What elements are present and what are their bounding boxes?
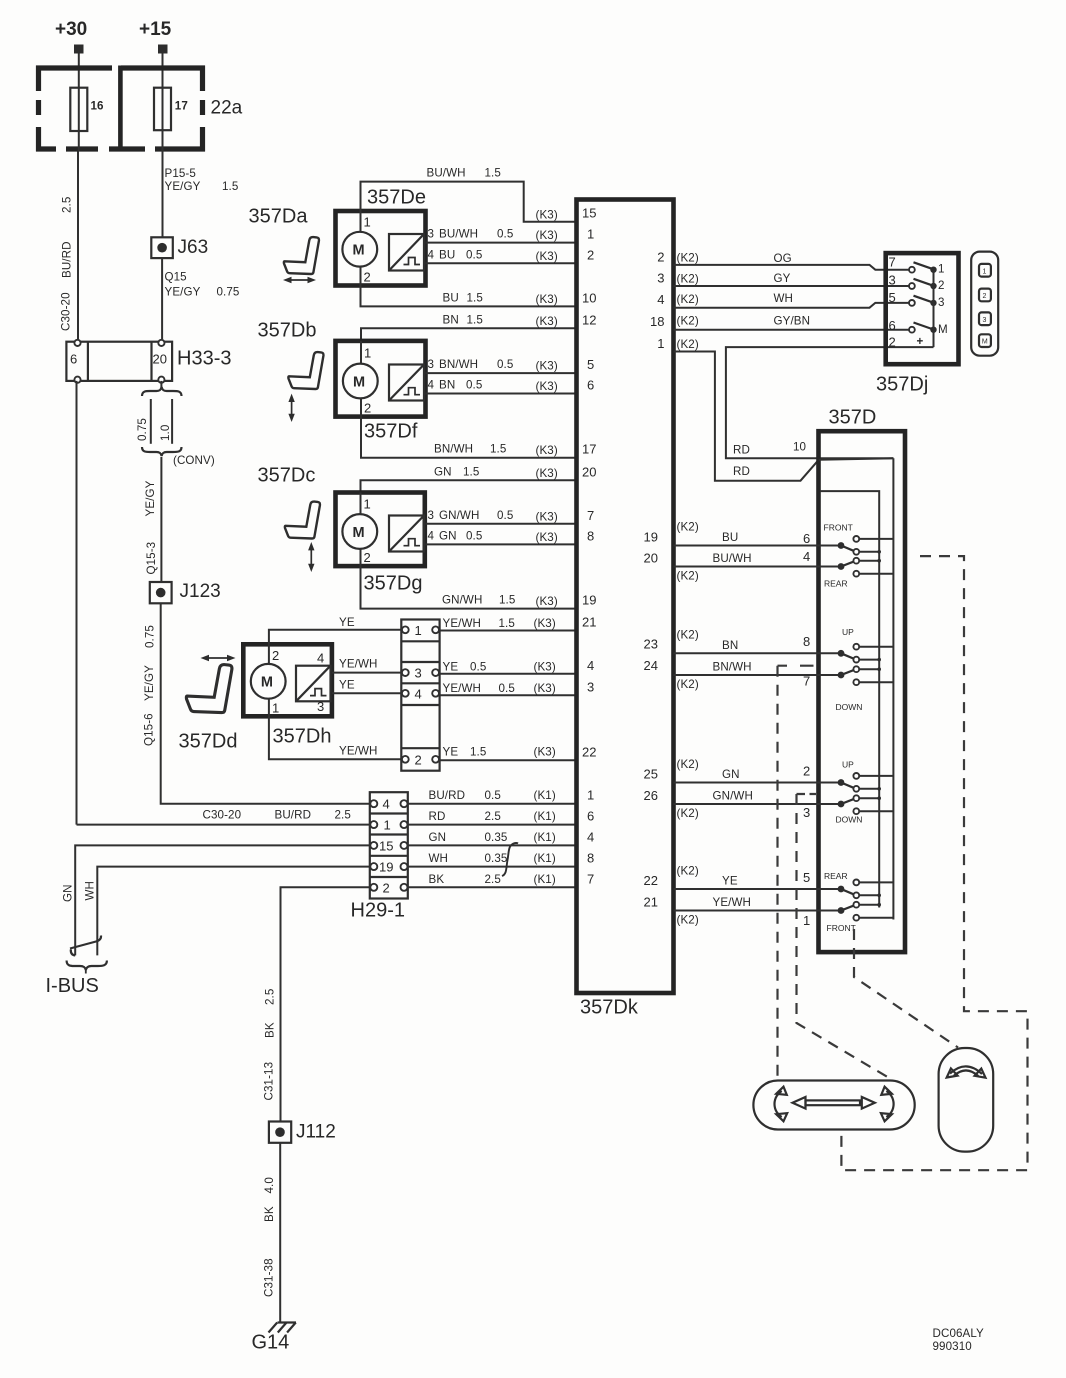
wire 357Dj pin2 to 357D pin10 (RD) (726, 347, 934, 458)
svg-text:5: 5 (587, 357, 594, 372)
svg-text:2.5: 2.5 (264, 989, 277, 1005)
svg-text:BU: BU (722, 531, 738, 544)
svg-text:4: 4 (383, 797, 390, 812)
wire 357Dk pin1 K2 to 357D (RD) (674, 338, 819, 481)
svg-text:0.5: 0.5 (485, 789, 501, 802)
svg-text:YE: YE (443, 745, 459, 758)
svg-text:(K2): (K2) (677, 570, 699, 583)
svg-text:BU/WH: BU/WH (439, 228, 478, 241)
wire connector pin4 to 357Dk pin3 (YE/WH 0.5) (440, 682, 577, 696)
svg-text:357Dg: 357Dg (364, 573, 423, 595)
svg-text:1: 1 (587, 227, 594, 242)
wire connector pin3 to 357Dk pin4 (YE 0.5) (440, 660, 577, 674)
pictogram backrest recline (939, 1048, 994, 1152)
svg-text:2: 2 (415, 752, 422, 767)
svg-text:GN/WH: GN/WH (442, 594, 482, 607)
wire H29-1 pin19 to I-BUS (WH) (84, 867, 370, 956)
svg-text:GN: GN (429, 831, 447, 844)
wire 357De pin3 to 357Dk pin1 (BU/WH 0.5) (426, 228, 577, 243)
svg-text:1.5: 1.5 (485, 167, 501, 180)
wire 357Dh pin1 to connector pin2 (YE/WH) (269, 716, 401, 759)
svg-text:YE/GY: YE/GY (165, 286, 201, 299)
svg-text:Q15: Q15 (165, 271, 187, 284)
svg-text:15: 15 (379, 839, 393, 854)
wire J63 to H33-3 pin 20 (Q15 YE/GY 0.75) (162, 258, 239, 339)
svg-text:(K3): (K3) (536, 360, 558, 373)
motor 357Df (336, 341, 426, 443)
wire 357Dk pin25 to 357D (GN K2) (674, 758, 842, 783)
svg-text:4: 4 (587, 658, 594, 673)
svg-text:2.5: 2.5 (61, 197, 74, 213)
svg-text:BN: BN (439, 379, 455, 392)
svg-text:(K2): (K2) (677, 629, 699, 642)
motor 357De (336, 187, 426, 286)
svg-text:YE: YE (339, 678, 355, 691)
svg-text:YE/GY: YE/GY (143, 665, 156, 701)
svg-text:1: 1 (272, 701, 279, 716)
svg-text:RD: RD (733, 443, 750, 456)
svg-text:3: 3 (587, 679, 594, 694)
svg-text:GN: GN (434, 465, 452, 478)
svg-text:21: 21 (582, 615, 596, 630)
wire 357Df pin3 to 357Dk pin5 (BN/WH 0.5) (426, 358, 577, 373)
svg-text:(K3): (K3) (536, 595, 558, 608)
svg-text:6: 6 (803, 531, 810, 546)
switch unit 357Dj (876, 253, 959, 395)
svg-text:18: 18 (650, 314, 664, 329)
svg-text:2.5: 2.5 (335, 809, 351, 822)
svg-text:(CONV): (CONV) (173, 454, 215, 467)
svg-text:BN/WH: BN/WH (439, 358, 478, 371)
svg-text:4: 4 (803, 549, 810, 564)
svg-text:2: 2 (364, 270, 371, 285)
svg-text:19: 19 (379, 860, 393, 875)
svg-text:BK: BK (429, 873, 445, 886)
svg-text:6: 6 (70, 352, 77, 367)
svg-text:20: 20 (153, 352, 167, 367)
wire 357Dk pin20 to 357Dg pin1 (GN 1.5) (361, 465, 577, 492)
wire J123 to H29-1 pin4 (0.75 YE/GY Q15-6) (143, 603, 370, 803)
svg-text:20: 20 (644, 551, 658, 566)
svg-text:24: 24 (644, 658, 658, 673)
svg-text:(K3): (K3) (534, 660, 556, 673)
svg-text:BN: BN (443, 313, 459, 326)
svg-text:GN: GN (722, 768, 740, 781)
svg-text:4: 4 (428, 529, 435, 542)
svg-text:1: 1 (657, 336, 664, 351)
svg-text:2: 2 (938, 279, 945, 292)
svg-text:357Dk: 357Dk (580, 997, 639, 1019)
svg-text:(K2): (K2) (677, 758, 699, 771)
seat icon 357Dc with vertical arrow (258, 465, 320, 573)
svg-text:(K1): (K1) (534, 789, 556, 802)
fuse box 22a dashed border (36, 66, 243, 152)
svg-text:4: 4 (415, 686, 422, 701)
svg-text:GN: GN (439, 529, 457, 542)
svg-text:3: 3 (983, 317, 987, 324)
wire fuse17 to J63 (P15-5 YE/GY 1.5) (163, 130, 239, 238)
svg-text:BN: BN (722, 639, 738, 652)
svg-text:4: 4 (657, 292, 664, 307)
svg-text:0.75: 0.75 (144, 625, 157, 648)
motor 357Dg (336, 493, 425, 595)
svg-text:3: 3 (938, 296, 945, 309)
357Dj contacts and blades (909, 262, 948, 348)
svg-text:YE/WH: YE/WH (339, 744, 378, 757)
connector face symbol (971, 252, 998, 356)
svg-text:3: 3 (415, 666, 422, 681)
svg-text:YE: YE (722, 875, 738, 888)
svg-text:(K1): (K1) (534, 810, 556, 823)
357D inner supply rails (819, 458, 894, 919)
svg-text:(K2): (K2) (677, 251, 699, 264)
svg-text:0.35: 0.35 (485, 831, 508, 844)
svg-text:GN: GN (62, 884, 75, 902)
seat icon 357Da with fore-aft arrow (249, 206, 319, 284)
svg-text:+30: +30 (55, 19, 87, 40)
svg-text:8: 8 (587, 851, 594, 866)
svg-text:BU/WH: BU/WH (427, 167, 466, 180)
svg-text:357Dd: 357Dd (179, 731, 238, 753)
splice J123 (150, 581, 221, 603)
svg-text:1.5: 1.5 (463, 465, 479, 478)
svg-text:2.5: 2.5 (485, 873, 501, 886)
svg-text:(K2): (K2) (677, 865, 699, 878)
svg-text:GN/WH: GN/WH (713, 790, 753, 803)
svg-text:(K3): (K3) (534, 682, 556, 695)
wire 357Df pin2 to 357Dk pin17 (BN/WH 1.5) (361, 417, 577, 458)
svg-text:(K1): (K1) (534, 852, 556, 865)
svg-text:1.5: 1.5 (490, 443, 506, 456)
svg-text:H29-1: H29-1 (351, 900, 405, 922)
svg-text:22a: 22a (211, 98, 243, 119)
svg-text:(K2): (K2) (677, 293, 699, 306)
svg-text:2: 2 (889, 335, 896, 350)
svg-text:YE: YE (339, 616, 355, 629)
svg-text:(K3): (K3) (536, 531, 558, 544)
fuse 16 (70, 88, 104, 131)
svg-text:1.5: 1.5 (470, 745, 486, 758)
wire +15 square to fuse box (162, 54, 164, 88)
svg-text:1.0: 1.0 (159, 425, 172, 441)
svg-text:M: M (353, 525, 365, 541)
switch pack 357D (819, 407, 906, 953)
svg-text:(K3): (K3) (536, 380, 558, 393)
wire 357De pin2 to 357Dk pin10 (BU 1.5) (361, 286, 577, 307)
svg-text:26: 26 (644, 788, 658, 803)
svg-text:C30-20: C30-20 (60, 292, 73, 331)
wire H33-3 pin6 down to H29-1 pin1 corner (76, 381, 78, 825)
svg-text:2: 2 (983, 293, 987, 300)
svg-text:0.5: 0.5 (497, 228, 513, 241)
wire 357Dh pin4 to connector pin3 (YE/WH) (332, 658, 401, 673)
svg-text:FRONT: FRONT (827, 923, 856, 933)
svg-text:BU/WH: BU/WH (713, 552, 752, 565)
svg-text:4.0: 4.0 (263, 1177, 276, 1193)
svg-text:1: 1 (803, 913, 810, 928)
svg-text:8: 8 (587, 528, 594, 543)
svg-text:990310: 990310 (933, 1340, 972, 1353)
wire H29-1 pin2 to J112 (BK 2.5 C31-13) (263, 887, 370, 1121)
svg-text:4: 4 (428, 248, 435, 261)
svg-text:1.5: 1.5 (499, 594, 515, 607)
svg-text:(K2): (K2) (677, 914, 699, 927)
svg-text:2: 2 (383, 881, 390, 896)
svg-text:0.5: 0.5 (497, 509, 513, 522)
splice J63 (151, 237, 208, 258)
wire 357Dk pin26 to 357D (GN/WH K2) (674, 790, 842, 821)
wire 357Dg pin4 to 357Dk pin8 (GN 0.5) (426, 529, 577, 544)
svg-text:357Dj: 357Dj (876, 374, 928, 396)
conv split symbol below H33-3 pin 20 (136, 381, 215, 467)
svg-text:(K3): (K3) (536, 229, 558, 242)
mechanical link dashed: slide switch to slide pictogram (841, 556, 1027, 1170)
wire 357De pin1 to 357Dk pin15 (BU/WH 1.5) (361, 167, 577, 222)
svg-text:G14: G14 (252, 1332, 290, 1354)
svg-text:RD: RD (733, 465, 750, 478)
twisted pair symbol on GN/WH wires (502, 843, 518, 876)
svg-text:0.5: 0.5 (466, 248, 482, 261)
svg-text:M: M (982, 339, 988, 346)
svg-text:J123: J123 (180, 581, 221, 602)
wire H29-1 pin4 to 357Dk pin1 (BU/RD 0.5 K1) (408, 789, 577, 804)
svg-text:7: 7 (587, 508, 594, 523)
svg-text:OG: OG (774, 252, 792, 265)
svg-text:23: 23 (644, 637, 658, 652)
svg-text:BN/WH: BN/WH (434, 443, 473, 456)
svg-text:M: M (261, 675, 273, 691)
wire H29-1 pin2 to 357Dk pin7 (BK 2.5 K1) (408, 873, 577, 888)
svg-text:21: 21 (644, 895, 658, 910)
svg-text:2: 2 (272, 648, 279, 663)
svg-text:25: 25 (644, 767, 658, 782)
wire 357Dk pin4 to 357Dj pin5 (WH K2) (674, 292, 912, 308)
svg-text:BK: BK (264, 1022, 277, 1038)
357Dk right pin numbers (644, 249, 665, 909)
svg-text:22: 22 (644, 873, 658, 888)
svg-text:357Da: 357Da (249, 206, 309, 228)
svg-text:1: 1 (587, 788, 594, 803)
svg-text:Q15-3: Q15-3 (145, 542, 158, 575)
svg-text:(K2): (K2) (677, 678, 699, 691)
connector block 4-pin (401, 620, 439, 771)
svg-text:10: 10 (793, 441, 806, 454)
svg-text:(K2): (K2) (677, 338, 699, 351)
svg-text:0.75: 0.75 (217, 286, 240, 299)
svg-text:(K3): (K3) (536, 467, 558, 480)
wire fuse16 to H33-3 pin 6 (BU/RD 2.5) (60, 131, 79, 339)
svg-text:0.75: 0.75 (136, 418, 149, 441)
wire 357Dk pin22 to 357D (YE K2) (674, 865, 842, 890)
connector H33-3 (66, 340, 231, 383)
svg-text:(K2): (K2) (677, 273, 699, 286)
mechanical link dashed: front height switch (778, 666, 814, 1079)
node +15 supply (139, 19, 172, 54)
svg-text:1: 1 (364, 497, 371, 512)
mechanical link dashed: rear height switch (797, 794, 888, 1077)
svg-text:5: 5 (803, 870, 810, 885)
svg-text:3: 3 (889, 273, 896, 288)
svg-text:YE/WH: YE/WH (339, 658, 378, 671)
svg-text:BU/RD: BU/RD (429, 789, 466, 802)
svg-text:1.5: 1.5 (222, 180, 238, 193)
splice J112 (269, 1122, 336, 1143)
svg-text:357Dc: 357Dc (258, 465, 316, 487)
svg-text:357Db: 357Db (258, 320, 317, 342)
ground G14 (252, 1323, 297, 1354)
svg-text:3: 3 (428, 228, 435, 241)
svg-text:357D: 357D (829, 407, 877, 429)
svg-text:YE/WH: YE/WH (443, 617, 482, 630)
svg-text:(K3): (K3) (534, 745, 556, 758)
svg-text:(K3): (K3) (536, 250, 558, 263)
svg-text:WH: WH (429, 852, 449, 865)
svg-text:J112: J112 (296, 1122, 336, 1143)
svg-text:C30-20: C30-20 (203, 809, 242, 822)
svg-text:17: 17 (582, 442, 596, 457)
node +30 supply (55, 19, 87, 54)
wire H29-1 pin1 feed (C30-20 BU/RD 2.5) (77, 809, 370, 825)
svg-text:RD: RD (429, 810, 446, 823)
svg-text:2: 2 (364, 401, 371, 416)
wire 357Dk pin12 to 357Df pin1 (BN 1.5) (361, 313, 577, 341)
svg-text:2: 2 (364, 550, 371, 565)
wire 357Dk pin19 to 357D (BU K2) (674, 521, 842, 547)
svg-text:YE/GY: YE/GY (165, 180, 201, 193)
svg-text:15: 15 (582, 206, 596, 221)
svg-text:(K3): (K3) (536, 209, 558, 222)
svg-text:(K3): (K3) (536, 444, 558, 457)
wire 357Dh pin3 to connector pin4 (YE) (332, 678, 401, 693)
svg-text:UP: UP (842, 760, 854, 770)
357Dk left pin numbers (582, 206, 596, 887)
wire 357Df pin4 to 357Dk pin6 (BN 0.5) (426, 379, 577, 394)
svg-text:1: 1 (415, 623, 422, 638)
svg-text:1.5: 1.5 (499, 617, 515, 630)
svg-text:DOWN: DOWN (836, 815, 863, 825)
wire 357Dk pin23 to 357D (BN K2) (674, 629, 842, 654)
svg-text:(K1): (K1) (534, 831, 556, 844)
drawing number (933, 1327, 985, 1353)
svg-text:H33-3: H33-3 (177, 348, 231, 370)
wire +30 square to fuse box (78, 54, 80, 88)
wire H29-1 pin15 to I-BUS (GN) (62, 845, 370, 955)
svg-text:(K3): (K3) (536, 510, 558, 523)
wire 357Dk pin18 to 357Dj pin6 (GY/BN K2) (674, 315, 912, 330)
svg-text:0.5: 0.5 (466, 529, 482, 542)
svg-text:4: 4 (317, 651, 324, 666)
svg-text:3: 3 (803, 805, 810, 820)
svg-text:7: 7 (803, 674, 810, 689)
wire 357Dk pin3 to 357Dj pin3 (GY K2) (674, 272, 912, 286)
svg-text:8: 8 (803, 634, 810, 649)
svg-text:3: 3 (657, 271, 664, 286)
svg-text:22: 22 (582, 744, 596, 759)
svg-text:P15-5: P15-5 (165, 167, 196, 180)
svg-text:DOWN: DOWN (836, 702, 863, 712)
wire 357Dg pin3 to 357Dk pin7 (GN/WH 0.5) (426, 509, 577, 524)
seat icon 357Dd with fore-aft arrow above (179, 655, 238, 753)
svg-text:3: 3 (428, 358, 435, 371)
svg-text:2: 2 (657, 249, 664, 264)
switch contacts 357D group (838, 644, 894, 685)
svg-text:0.5: 0.5 (497, 358, 513, 371)
svg-text:Q15-6: Q15-6 (143, 713, 156, 746)
wire H29-1 pin1 to 357Dk pin6 (RD 2.5 K1) (408, 810, 577, 825)
fuse 17 (154, 88, 188, 131)
svg-text:6: 6 (587, 809, 594, 824)
wire connector pin1 to 357Dk pin21 (YE/WH 1.5) (440, 617, 577, 631)
svg-text:FRONT: FRONT (824, 523, 853, 533)
svg-text:4: 4 (587, 829, 594, 844)
svg-text:0.35: 0.35 (485, 852, 508, 865)
svg-text:0.5: 0.5 (499, 682, 515, 695)
switch direction labels (824, 523, 863, 934)
wire 357Dg pin2 to 357Dk pin19 (GN/WH 1.5) (361, 566, 577, 609)
svg-text:(K2): (K2) (677, 807, 699, 820)
svg-text:C31-13: C31-13 (263, 1062, 276, 1101)
svg-text:BU/RD: BU/RD (61, 241, 74, 278)
motor 357Dh (243, 644, 332, 747)
wire 357Dh pin2 to connector pin1 (YE) (269, 616, 401, 644)
svg-text:REAR: REAR (824, 871, 848, 881)
svg-text:(K3): (K3) (534, 617, 556, 630)
svg-text:357Dh: 357Dh (273, 726, 332, 748)
svg-text:357Df: 357Df (364, 421, 418, 443)
seat icon 357Db with vertical arrow (258, 320, 324, 423)
svg-text:(K2): (K2) (677, 521, 699, 534)
svg-text:C31-38: C31-38 (263, 1258, 276, 1297)
svg-text:1: 1 (983, 268, 987, 275)
svg-text:1: 1 (938, 262, 945, 275)
switch contacts 357D group (838, 536, 894, 577)
svg-text:YE: YE (443, 660, 459, 673)
svg-text:2: 2 (803, 764, 810, 779)
wire 357Dk pin2 to 357Dj pin7 (OG K2) (674, 251, 912, 269)
svg-text:5: 5 (889, 290, 896, 305)
wire 357Dk pin20 to 357D (BU/WH K2) (674, 549, 842, 583)
switch contacts 357D group (838, 773, 894, 814)
wire J112 to G14 (4.0 BK C31-38) (263, 1143, 281, 1323)
svg-text:7: 7 (587, 871, 594, 886)
svg-text:16: 16 (91, 100, 105, 113)
svg-text:WH: WH (84, 881, 97, 901)
svg-text:7: 7 (889, 255, 896, 270)
svg-text:YE/WH: YE/WH (713, 896, 752, 909)
svg-text:1.5: 1.5 (467, 313, 483, 326)
svg-text:M: M (353, 243, 365, 259)
svg-text:BN/WH: BN/WH (713, 661, 752, 674)
svg-text:357De: 357De (367, 187, 426, 209)
svg-text:17: 17 (175, 100, 188, 113)
svg-text:1.5: 1.5 (467, 291, 483, 304)
wire connector pin2 to 357Dk pin22 (YE 1.5) (440, 745, 577, 760)
svg-text:(K3): (K3) (536, 293, 558, 306)
svg-text:0.5: 0.5 (466, 379, 482, 392)
svg-text:20: 20 (582, 464, 596, 479)
svg-text:19: 19 (644, 530, 658, 545)
control module 357Dk (577, 200, 674, 1019)
wire 357Dk pin21 to 357D (YE/WH K2) (674, 896, 842, 928)
svg-text:REAR: REAR (824, 579, 848, 589)
svg-text:YE/WH: YE/WH (443, 682, 482, 695)
wire H29-1 pin15 to 357Dk pin4 (GN 0.35 K1) (408, 831, 577, 846)
svg-text:10: 10 (582, 290, 596, 305)
svg-text:3: 3 (317, 699, 324, 714)
svg-text:GY: GY (774, 272, 791, 285)
svg-text:(K2): (K2) (677, 315, 699, 328)
mechanical link dashed: backrest switch to recline pictogram (854, 929, 958, 1048)
